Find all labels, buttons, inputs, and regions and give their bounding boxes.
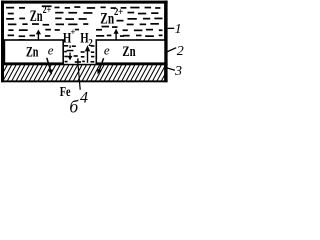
zinc block left (anode) — [4, 40, 63, 63]
svg-text:2+: 2+ — [43, 5, 52, 16]
vessel right wall — [164, 1, 168, 83]
leader line to label 1 (solution) — [168, 28, 175, 29]
electron flow arrow from right Zn into Fe — [97, 58, 104, 74]
iron base plate Fe top and bottom borders — [1, 64, 168, 83]
label H2 — [80, 30, 93, 48]
svg-text:2: 2 — [177, 44, 184, 59]
svg-text:e: e — [104, 43, 110, 58]
svg-text:б: б — [69, 97, 79, 114]
svg-text:Zn: Zn — [122, 44, 136, 60]
label Zn2+ left — [30, 5, 52, 25]
electron flow arrow from left Zn into Fe — [47, 58, 53, 75]
arrow Zn2+ leaving left block — [36, 30, 41, 41]
svg-text:Zn: Zn — [30, 8, 43, 25]
svg-text:4: 4 — [80, 90, 88, 107]
hydrogen deposit mark on Fe surface — [75, 58, 81, 62]
zinc block right (anode) — [96, 40, 165, 63]
vessel top wall — [1, 1, 168, 4]
svg-text:e: e — [48, 42, 54, 57]
leader line to label 4 (cathode site) — [78, 61, 81, 90]
svg-text:3: 3 — [174, 64, 182, 79]
svg-text:1: 1 — [175, 22, 182, 37]
iron base hatching — [0, 65, 175, 82]
vessel left wall — [1, 1, 4, 83]
svg-text:Zn: Zn — [26, 44, 39, 60]
svg-text:2+: 2+ — [114, 7, 123, 18]
electrolyte solution dashes — [6, 5, 163, 62]
leader line to label 3 (iron) — [167, 68, 175, 70]
label Zn2+ right — [100, 7, 123, 28]
arrow Zn2+ leaving right block — [114, 29, 119, 40]
svg-text:Zn: Zn — [100, 11, 114, 28]
leader line to label 2 (zinc coating) — [167, 48, 177, 52]
svg-text:+: + — [70, 27, 75, 37]
label H+ — [63, 27, 76, 46]
H+ ion dashed arrow moving down to cathode — [67, 45, 74, 60]
H2 gas arrow rising — [85, 45, 90, 63]
svg-text:2: 2 — [88, 38, 93, 49]
